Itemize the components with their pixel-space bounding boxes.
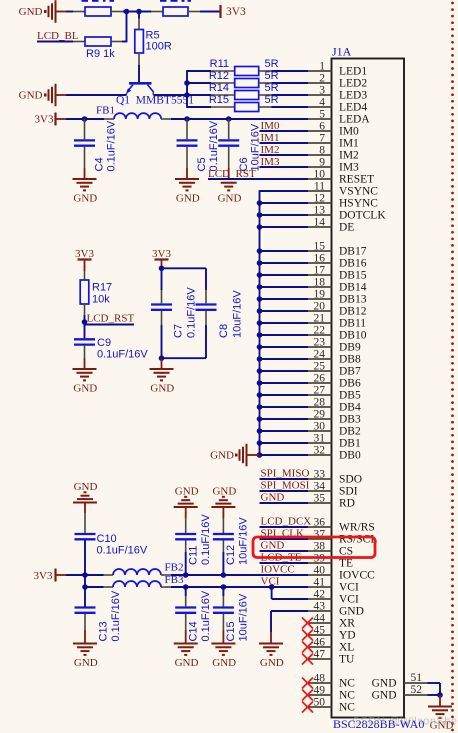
svg-text:5R: 5R <box>265 94 279 106</box>
svg-text:GND: GND <box>150 383 174 395</box>
svg-text:C14: C14 <box>188 621 200 641</box>
svg-text:48: 48 <box>314 673 326 685</box>
svg-text:41: 41 <box>314 577 326 589</box>
svg-text:VSYNC: VSYNC <box>339 186 378 198</box>
svg-text:C5: C5 <box>196 157 208 171</box>
svg-text:24: 24 <box>314 349 326 361</box>
svg-text:51: 51 <box>411 672 423 684</box>
svg-text:40: 40 <box>314 565 326 577</box>
svg-text:49: 49 <box>314 685 326 697</box>
svg-text:C12: C12 <box>225 545 237 565</box>
svg-text:GND: GND <box>372 678 397 690</box>
svg-text:R12: R12 <box>209 70 229 82</box>
svg-text:YD: YD <box>339 630 356 642</box>
svg-text:RESET: RESET <box>339 174 374 186</box>
svg-text:2: 2 <box>319 73 325 85</box>
svg-text:GND: GND <box>175 486 199 498</box>
svg-text:DB0: DB0 <box>339 450 361 462</box>
svg-text:IM1: IM1 <box>339 138 359 150</box>
svg-text:13: 13 <box>314 205 326 217</box>
svg-text:5R: 5R <box>265 82 279 94</box>
svg-text:33: 33 <box>314 469 326 481</box>
svg-text:HSYNC: HSYNC <box>339 198 378 210</box>
svg-text:DOTCLK: DOTCLK <box>339 210 386 222</box>
svg-text:GND: GND <box>261 492 285 504</box>
svg-text:GND: GND <box>19 90 43 102</box>
svg-text:DB14: DB14 <box>339 282 367 294</box>
svg-text:45: 45 <box>314 625 326 637</box>
svg-text:DB4: DB4 <box>339 402 361 414</box>
svg-text:TU: TU <box>339 654 355 666</box>
svg-text:35: 35 <box>314 493 326 505</box>
svg-text:LEDA: LEDA <box>339 114 370 126</box>
svg-text:32: 32 <box>314 445 326 457</box>
svg-text:29: 29 <box>314 409 326 421</box>
svg-text:7: 7 <box>319 133 325 145</box>
svg-text:GND: GND <box>73 193 97 205</box>
svg-text:FB1: FB1 <box>96 105 115 117</box>
svg-text:1: 1 <box>319 61 325 73</box>
svg-text:GND: GND <box>261 540 285 552</box>
svg-text:0.1uF/16V: 0.1uF/16V <box>97 545 148 557</box>
svg-text:25: 25 <box>314 361 326 373</box>
svg-text:0.1uF/16V: 0.1uF/16V <box>97 349 148 361</box>
svg-text:RD: RD <box>339 498 355 510</box>
svg-text:23: 23 <box>314 337 326 349</box>
svg-text:GND: GND <box>175 657 199 669</box>
svg-text:DB1: DB1 <box>339 438 361 450</box>
svg-text:C15: C15 <box>225 621 237 641</box>
svg-text:RS/SCL: RS/SCL <box>339 534 377 546</box>
svg-text:42: 42 <box>314 589 326 601</box>
svg-text:GND: GND <box>212 486 236 498</box>
svg-text:LED4: LED4 <box>339 102 367 114</box>
svg-text:10uF/16V: 10uF/16V <box>238 517 250 565</box>
svg-text:TE: TE <box>339 558 353 570</box>
svg-text:DB6: DB6 <box>339 378 361 390</box>
svg-text:DB3: DB3 <box>339 414 361 426</box>
svg-text:GND: GND <box>74 481 98 493</box>
svg-text:C9: C9 <box>97 337 111 349</box>
svg-text:NC: NC <box>339 690 355 702</box>
svg-text:Q1 MMBT5551: Q1 MMBT5551 <box>116 95 194 107</box>
svg-text:38: 38 <box>314 541 326 553</box>
svg-text:15: 15 <box>314 241 326 253</box>
svg-text:3V3: 3V3 <box>34 570 53 582</box>
svg-text:C13: C13 <box>98 621 110 641</box>
svg-text:GND: GND <box>339 606 364 618</box>
svg-text:8: 8 <box>319 145 325 157</box>
svg-text:14: 14 <box>314 217 326 229</box>
svg-text:SPI_MOSI: SPI_MOSI <box>261 480 310 492</box>
svg-text:GND: GND <box>176 193 200 205</box>
svg-text:50: 50 <box>314 697 326 709</box>
svg-text:16: 16 <box>314 253 326 265</box>
svg-text:44: 44 <box>314 613 326 625</box>
svg-text:4: 4 <box>319 97 325 109</box>
svg-text:GND: GND <box>260 657 284 669</box>
svg-text:C8: C8 <box>218 324 230 338</box>
svg-text:27: 27 <box>314 385 326 397</box>
svg-text:SPI_MISO: SPI_MISO <box>261 468 310 480</box>
svg-text:IOVCC: IOVCC <box>339 570 375 582</box>
svg-text:LED2: LED2 <box>339 78 367 90</box>
svg-text:LCD_DCX: LCD_DCX <box>261 516 312 528</box>
svg-text:DB10: DB10 <box>339 330 367 342</box>
svg-text:0.1uF/16V: 0.1uF/16V <box>186 287 198 338</box>
svg-text:DB7: DB7 <box>339 366 361 378</box>
svg-text:DB17: DB17 <box>339 246 367 258</box>
svg-text:C11: C11 <box>188 546 200 565</box>
svg-text:12: 12 <box>314 193 326 205</box>
svg-text:30: 30 <box>314 421 326 433</box>
svg-text:0.1uF/16V: 0.1uF/16V <box>200 514 212 565</box>
svg-text:R11: R11 <box>210 58 229 70</box>
svg-text:10: 10 <box>314 169 326 181</box>
svg-text:5R: 5R <box>265 70 279 82</box>
svg-text:GND: GND <box>74 657 98 669</box>
svg-text:18: 18 <box>314 277 326 289</box>
svg-text:10uF/16V: 10uF/16V <box>232 290 244 338</box>
svg-text:47: 47 <box>314 649 326 661</box>
svg-text:LCD_BL: LCD_BL <box>37 30 79 42</box>
svg-text:10k: 10k <box>92 294 110 306</box>
svg-text:5R: 5R <box>265 58 279 70</box>
svg-text:GND: GND <box>218 193 242 205</box>
svg-text:0.1uF/16V: 0.1uF/16V <box>200 590 212 641</box>
svg-text:CS: CS <box>339 546 353 558</box>
svg-text:LED3: LED3 <box>339 90 367 102</box>
svg-text:31: 31 <box>314 433 326 445</box>
svg-text:21: 21 <box>314 313 326 325</box>
svg-text:J1A: J1A <box>332 45 352 59</box>
svg-text:R17: R17 <box>92 282 112 294</box>
svg-text:GND: GND <box>210 450 234 462</box>
svg-text:46: 46 <box>314 637 326 649</box>
svg-text:C10: C10 <box>97 533 117 545</box>
svg-text:IM0: IM0 <box>339 126 359 138</box>
svg-text:R15: R15 <box>209 94 229 106</box>
svg-text:52: 52 <box>411 684 423 696</box>
svg-text:R9 1k: R9 1k <box>86 48 115 60</box>
svg-text:FB3: FB3 <box>165 574 184 586</box>
svg-text:VCI: VCI <box>339 594 359 606</box>
svg-text:GND: GND <box>19 6 43 18</box>
svg-text:DB11: DB11 <box>339 318 366 330</box>
svg-text:20: 20 <box>314 301 326 313</box>
svg-text:3V3: 3V3 <box>35 114 54 126</box>
svg-text:VCI: VCI <box>261 576 280 588</box>
svg-text:26: 26 <box>314 373 326 385</box>
svg-text:11: 11 <box>314 181 325 193</box>
svg-text:0.1uF/16V: 0.1uF/16V <box>110 590 122 641</box>
svg-text:DE: DE <box>339 222 354 234</box>
svg-text:IM3: IM3 <box>339 162 359 174</box>
svg-text:IOVCC: IOVCC <box>261 564 295 576</box>
svg-text:3: 3 <box>319 85 325 97</box>
svg-text:LCD_RST: LCD_RST <box>87 313 135 325</box>
svg-text:VCI: VCI <box>339 582 359 594</box>
svg-text:XR: XR <box>339 618 355 630</box>
svg-text:0.1uF/16V: 0.1uF/16V <box>105 120 117 171</box>
svg-text:DB16: DB16 <box>339 258 367 270</box>
svg-text:43: 43 <box>314 601 326 613</box>
svg-text:GND: GND <box>212 657 236 669</box>
svg-text:GND: GND <box>73 383 97 395</box>
svg-text:C4: C4 <box>94 157 106 171</box>
svg-text:FB2: FB2 <box>165 562 184 574</box>
svg-text:IM2: IM2 <box>339 150 359 162</box>
svg-text:22: 22 <box>314 325 326 337</box>
svg-text:34: 34 <box>314 481 326 493</box>
svg-text:SDI: SDI <box>339 486 358 498</box>
svg-text:NC: NC <box>339 702 355 714</box>
svg-text:3V3: 3V3 <box>226 6 246 18</box>
svg-text:3V3: 3V3 <box>75 248 94 260</box>
svg-text:NC: NC <box>339 678 355 690</box>
svg-text:DB5: DB5 <box>339 390 361 402</box>
svg-text:DB15: DB15 <box>339 270 367 282</box>
svg-text:DB13: DB13 <box>339 294 367 306</box>
svg-text:CSDN @WilsonSheng: CSDN @WilsonSheng <box>352 716 458 728</box>
svg-text:28: 28 <box>314 397 326 409</box>
svg-text:DB9: DB9 <box>339 342 361 354</box>
svg-text:5: 5 <box>319 109 325 121</box>
svg-text:6: 6 <box>319 121 325 133</box>
svg-text:LED1: LED1 <box>339 66 367 78</box>
svg-text:C7: C7 <box>173 324 185 338</box>
svg-text:37: 37 <box>314 529 326 541</box>
svg-text:19: 19 <box>314 289 326 301</box>
svg-text:GND: GND <box>372 690 397 702</box>
svg-text:36: 36 <box>314 517 326 529</box>
svg-text:17: 17 <box>314 265 326 277</box>
svg-text:R14: R14 <box>209 82 229 94</box>
svg-text:SDO: SDO <box>339 474 362 486</box>
svg-text:0.1uF/16V: 0.1uF/16V <box>208 120 220 171</box>
svg-text:XL: XL <box>339 642 354 654</box>
svg-text:100R: 100R <box>146 41 172 53</box>
svg-text:WR/RS: WR/RS <box>339 522 375 534</box>
svg-text:DB8: DB8 <box>339 354 361 366</box>
svg-text:DB2: DB2 <box>339 426 361 438</box>
svg-text:DB12: DB12 <box>339 306 367 318</box>
svg-text:9: 9 <box>319 157 325 169</box>
svg-text:10uF/16V: 10uF/16V <box>238 593 250 641</box>
svg-text:3V3: 3V3 <box>152 248 171 260</box>
